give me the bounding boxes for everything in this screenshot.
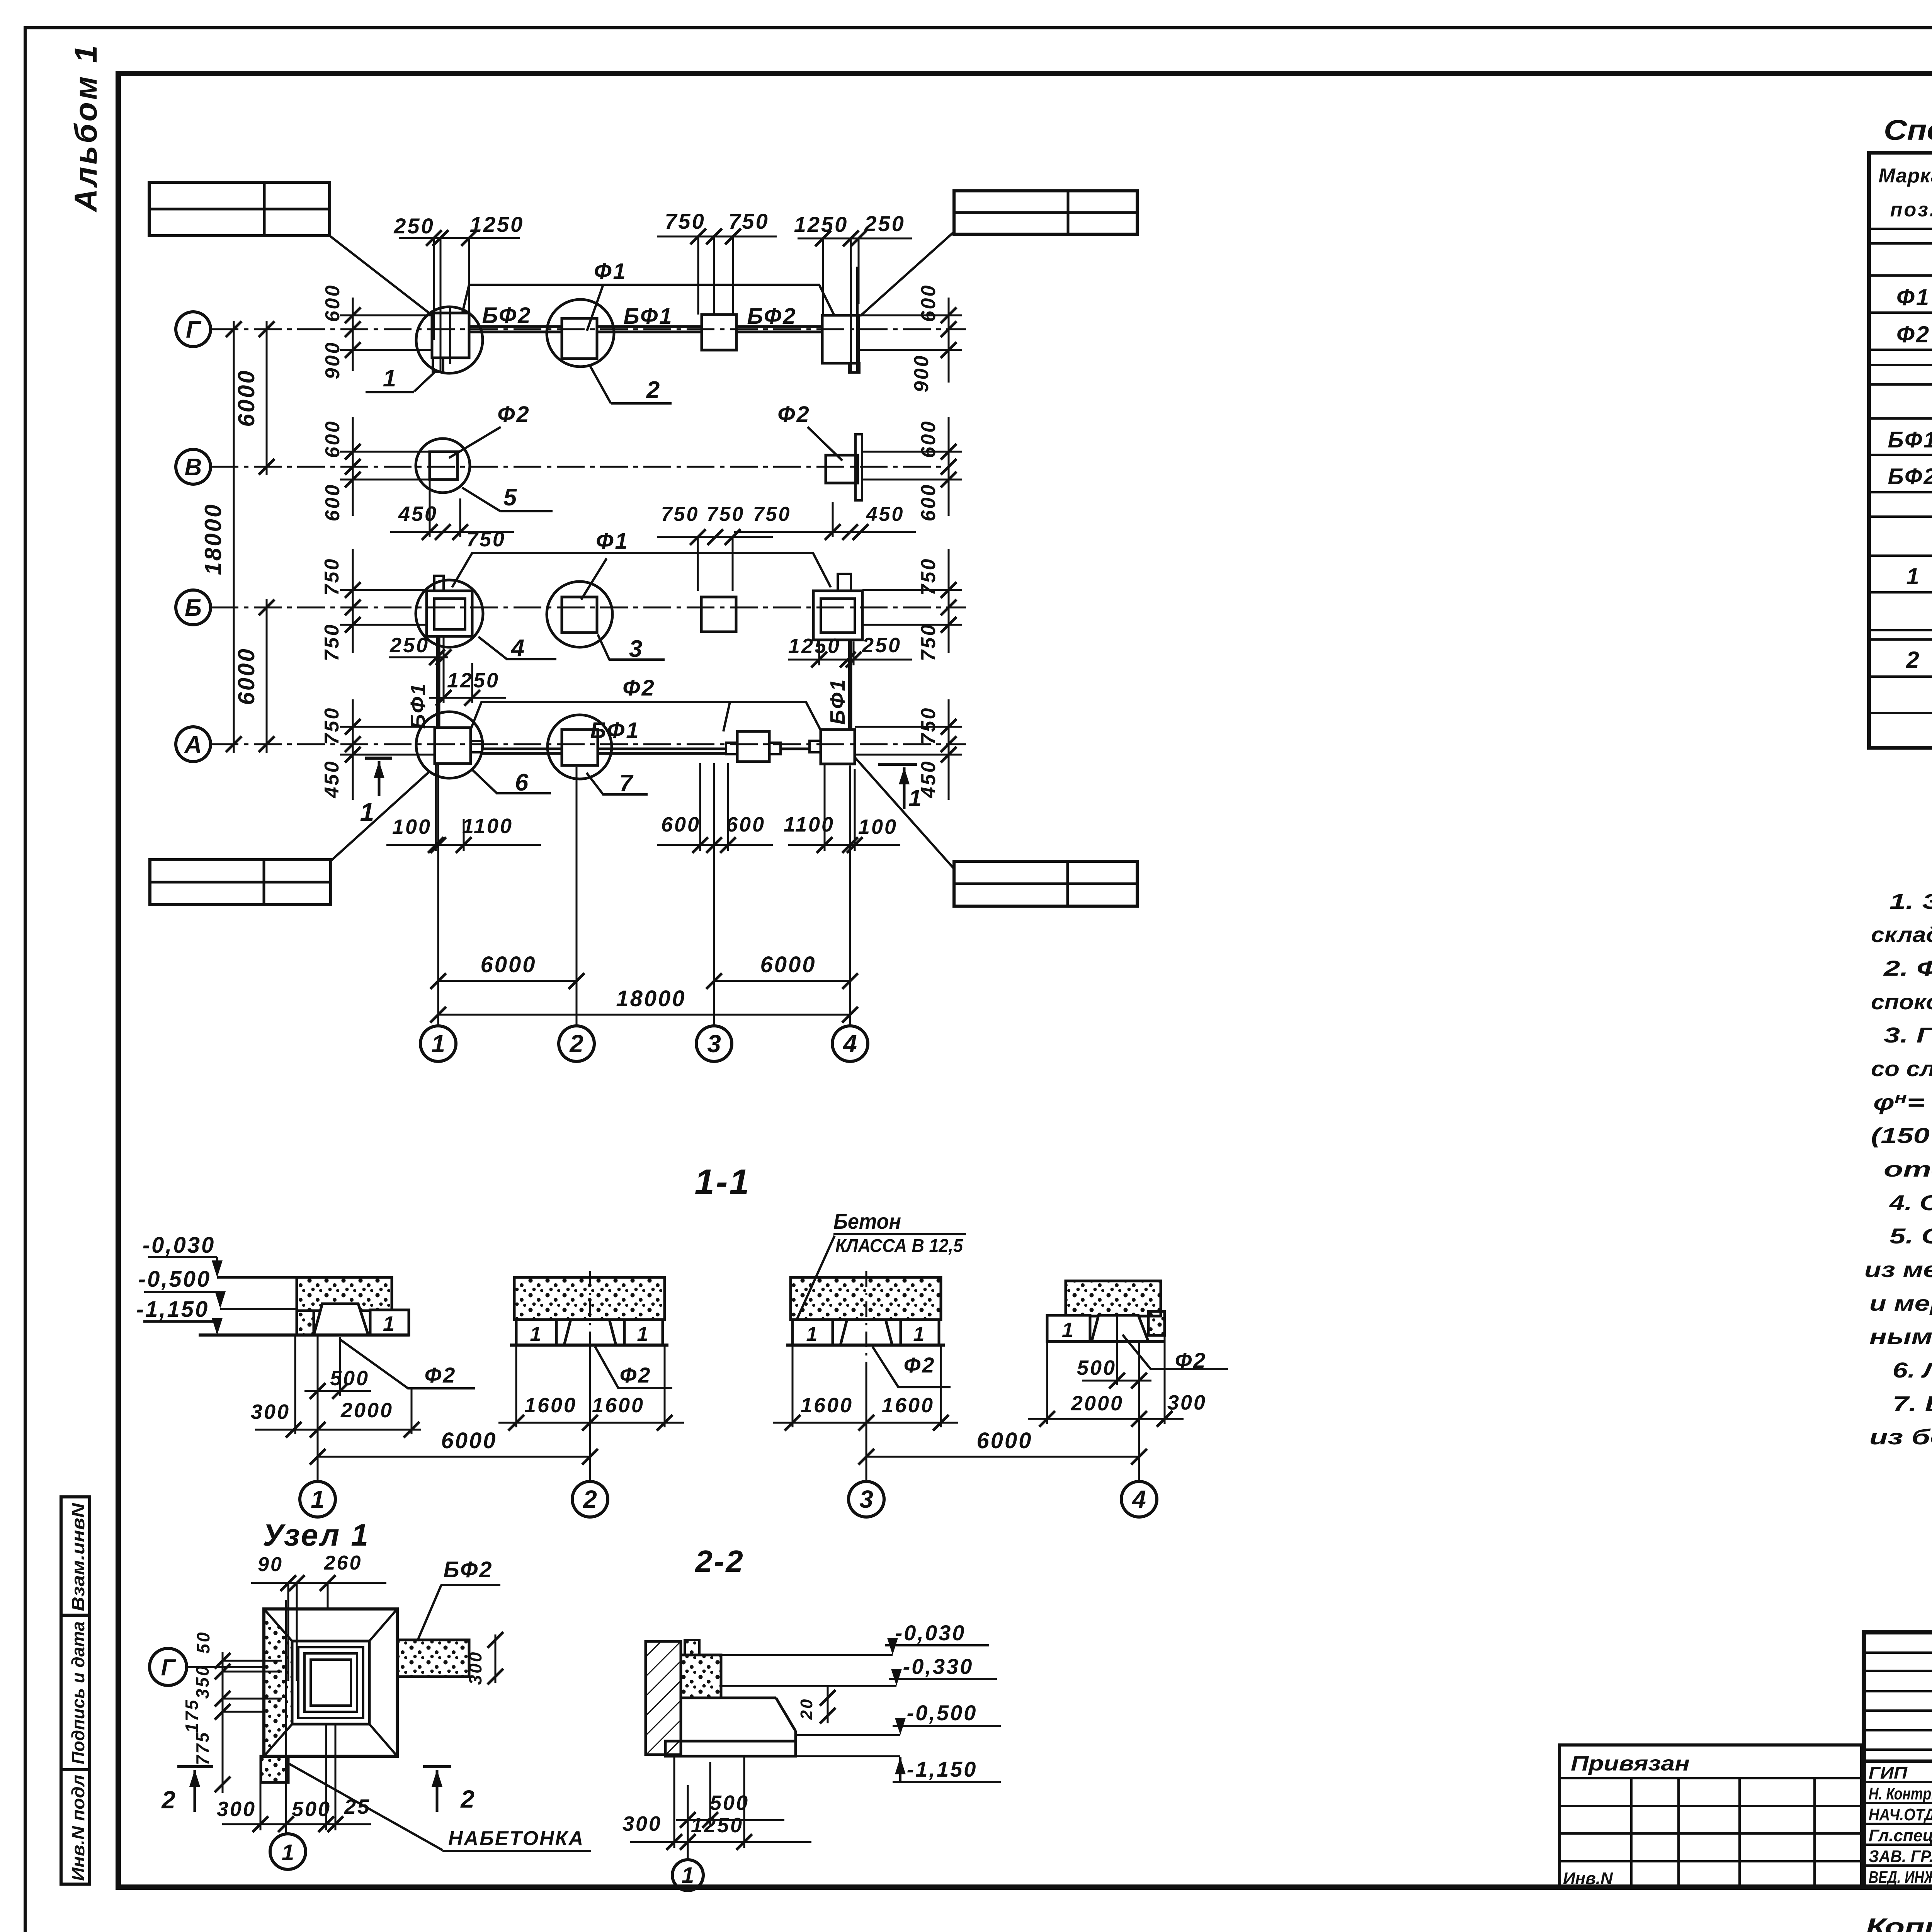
- wall hatched: [646, 1641, 681, 1755]
- svg-text:2: 2: [646, 377, 661, 403]
- beam BF1 vertical col1: [406, 636, 438, 729]
- column axis circle 4: [832, 1015, 868, 1061]
- svg-text:ЗАВ. ГР.: ЗАВ. ГР.: [1869, 1847, 1932, 1866]
- elevation -0.500: [138, 1267, 297, 1309]
- svg-text:2: 2: [583, 1485, 597, 1513]
- svg-text:2-2: 2-2: [694, 1544, 745, 1578]
- svg-text:Спецификация элементов фунда: Спецификация элементов фундаментов: [1884, 114, 1932, 146]
- specification table: [1869, 114, 1932, 748]
- callout F2 group 3: [872, 1347, 951, 1387]
- svg-text:спокойным рельефом территории.: спокойным рельефом территории.: [1871, 990, 1932, 1014]
- detail circle 7 pier: [548, 715, 612, 779]
- svg-text:Ф1: Ф1: [1896, 284, 1930, 310]
- footing group 3 blocks 1: [793, 1320, 939, 1345]
- svg-text:Альбом 1: Альбом 1: [68, 43, 104, 213]
- callout F2 group 4: [1122, 1335, 1228, 1372]
- title block grid: [1864, 1632, 1932, 1887]
- leader table to pier 1G: [330, 236, 430, 314]
- svg-text:ным уплотнением.: ным уплотнением.: [1869, 1324, 1932, 1349]
- pier 3B: [701, 597, 736, 632]
- dim 750-750 right row B: [862, 549, 962, 661]
- footing group 2 concrete: [514, 1277, 665, 1320]
- callout F2 group 1: [339, 1339, 475, 1388]
- svg-text:450: 450: [321, 760, 343, 799]
- axis dash group 3: [866, 1271, 867, 1376]
- axis line V: [211, 466, 943, 468]
- svg-text:6000: 6000: [480, 952, 536, 977]
- signature row: [1869, 1825, 1932, 1845]
- svg-text:НАЧ.ОТД: НАЧ.ОТД: [1869, 1805, 1932, 1824]
- section axis circle 1: [300, 1481, 335, 1517]
- footing group 2 F2 footing: [564, 1320, 616, 1345]
- pier 3A: [726, 731, 781, 762]
- spec table grid: [1869, 153, 1932, 748]
- column axis circle 1: [420, 1015, 456, 1061]
- svg-text:300: 300: [465, 1651, 485, 1685]
- col 2 extension line: [576, 767, 578, 1015]
- svg-text:Бетон: Бетон: [833, 1209, 901, 1233]
- detail circle 6 pier: [416, 712, 483, 778]
- svg-text:Г: Г: [161, 1655, 177, 1680]
- svg-text:750: 750: [753, 503, 791, 526]
- svg-text:4: 4: [1131, 1485, 1146, 1513]
- leader label 5: [462, 484, 553, 511]
- attachment table: [1560, 1745, 1862, 1887]
- ground line group 2: [510, 1344, 668, 1347]
- beam BF row G: [469, 327, 822, 332]
- svg-text:и мерзлых комьев слоями не бол: и мерзлых комьев слоями не более 200 мм …: [1869, 1291, 1932, 1315]
- callout F2 row V left: [449, 402, 531, 458]
- svg-text:Копировал.: Копировал.: [1866, 1914, 1932, 1932]
- svg-text:260: 260: [324, 1552, 362, 1574]
- ground line group 4: [1047, 1340, 1165, 1343]
- pier 4B with F footing: [813, 574, 862, 640]
- node section mark 2 right: [423, 1767, 476, 1813]
- svg-text:3: 3: [859, 1485, 873, 1513]
- axis circle Б: [176, 590, 211, 625]
- signature row: [1869, 1783, 1932, 1803]
- dim 6000 section left: [310, 1335, 598, 1481]
- svg-text:7. Все набетонки и монолитные: 7. Все набетонки и монолитные участки вы…: [1893, 1391, 1932, 1416]
- svg-text:Б: Б: [185, 595, 202, 621]
- svg-text:1100: 1100: [462, 815, 513, 838]
- footing group 1 F2 footing: [314, 1304, 368, 1335]
- svg-text:90: 90: [258, 1553, 283, 1576]
- svg-text:Узел 1: Узел 1: [263, 1518, 370, 1552]
- svg-text:1250: 1250: [447, 669, 500, 692]
- svg-text:2000: 2000: [1071, 1392, 1124, 1415]
- dim 500 s22: [676, 1762, 784, 1828]
- svg-text:250: 250: [393, 214, 434, 238]
- leader label 3: [598, 634, 665, 662]
- title block outline: [1864, 1632, 1932, 1887]
- svg-text:18000: 18000: [616, 986, 686, 1011]
- svg-text:3: 3: [629, 636, 644, 662]
- svg-text:6000: 6000: [760, 952, 816, 977]
- svg-text:из местного грунта без включен: из местного грунта без включений строите…: [1864, 1257, 1932, 1282]
- svg-text:Н. Контр.: Н. Контр.: [1869, 1784, 1932, 1803]
- col 3 extension line: [713, 763, 715, 1015]
- footing group 2 blocks 1: [516, 1320, 663, 1345]
- dim 600-600 right row V: [862, 417, 962, 521]
- svg-text:-0,030: -0,030: [143, 1233, 215, 1258]
- callout F2 row A: [471, 675, 821, 731]
- svg-text:2. Фундаменты разработаны для: 2. Фундаменты разработаны для строительс…: [1883, 956, 1932, 980]
- svg-text:БФ1: БФ1: [826, 678, 849, 724]
- title block: [1560, 1632, 1932, 1932]
- svg-text:750: 750: [728, 209, 769, 233]
- callout F2 group 2: [595, 1347, 672, 1388]
- footing group 4 block 1: [1047, 1315, 1090, 1342]
- section 2-2: [622, 1544, 1001, 1891]
- spec row F1: [1896, 284, 1932, 311]
- svg-text:БФ1: БФ1: [1888, 427, 1932, 452]
- dim 300-1250 s22: [622, 1756, 811, 1850]
- stamp box inv: [61, 1770, 90, 1884]
- svg-text:-0,030: -0,030: [895, 1621, 966, 1645]
- svg-text:6000: 6000: [441, 1428, 497, 1453]
- svg-text:250: 250: [389, 634, 429, 657]
- pier 1V F2: [430, 452, 457, 480]
- svg-text:3: 3: [707, 1030, 721, 1058]
- column axis circle 3: [696, 1015, 732, 1061]
- elevation -0.500 s22: [797, 1701, 1001, 1735]
- footing group 1 block 1: [370, 1310, 409, 1335]
- dim 750-750 above pier 3B: [657, 503, 773, 591]
- leader label 2: [590, 365, 672, 403]
- svg-text:1600: 1600: [524, 1394, 577, 1417]
- detail circle 1: [416, 307, 483, 373]
- svg-text:4: 4: [842, 1030, 857, 1058]
- section 2-2 axis circle 1: [672, 1860, 703, 1891]
- dim 6000 section right: [859, 1342, 1147, 1481]
- axis circle Г: [176, 312, 211, 347]
- svg-text:-0,330: -0,330: [903, 1654, 974, 1679]
- svg-text:1: 1: [913, 1323, 926, 1345]
- svg-text:Ф2: Ф2: [1896, 321, 1930, 347]
- svg-text:поз.: поз.: [1890, 199, 1932, 221]
- node inner rings: [292, 1641, 369, 1724]
- svg-text:БФ2: БФ2: [443, 1557, 493, 1582]
- svg-text:Ф2: Ф2: [497, 402, 531, 427]
- svg-text:350: 350: [192, 1665, 213, 1699]
- elevation -1.150 s22: [797, 1756, 1001, 1782]
- footing group 1 concrete: [297, 1277, 392, 1335]
- footing profile 2-2: [721, 1698, 796, 1741]
- dim 600-900 right row G: [859, 284, 962, 393]
- leader label 4: [478, 635, 556, 662]
- svg-text:600: 600: [917, 483, 940, 522]
- callout F1 row G: [462, 259, 834, 331]
- node left dims 50-350-175-775: [182, 1631, 282, 1793]
- svg-text:250: 250: [864, 211, 905, 236]
- svg-text:750: 750: [321, 623, 343, 662]
- svg-text:6: 6: [515, 769, 530, 796]
- section axis circle 2: [572, 1481, 608, 1517]
- leader table to pier 4A: [855, 758, 953, 868]
- svg-text:250: 250: [862, 634, 901, 657]
- dim chain 6000 upper: [233, 321, 274, 475]
- svg-text:Ф2: Ф2: [622, 675, 656, 701]
- node bottom dims 300-500-25: [217, 1724, 371, 1832]
- dim 750-450 below pier 4V: [734, 502, 916, 540]
- svg-text:Ф2: Ф2: [777, 402, 811, 427]
- svg-text:склада, соответствующая абсолю: склада, соответствующая абсолютной отмет…: [1871, 922, 1932, 947]
- dims below group 1: [251, 1335, 421, 1482]
- dim 600-600 left row V: [321, 417, 430, 521]
- svg-text:750: 750: [707, 503, 745, 526]
- spec table outline: [1869, 153, 1932, 748]
- column stippled: [681, 1640, 721, 1698]
- spec row F2: [1896, 321, 1932, 349]
- node nabetonka label: [286, 1762, 591, 1851]
- section 1-1: [136, 1162, 1228, 1517]
- node beam strip right: [397, 1632, 503, 1685]
- svg-text:600: 600: [661, 813, 701, 836]
- svg-text:100: 100: [392, 815, 432, 838]
- node dim 90-260: [251, 1552, 386, 1681]
- svg-text:300: 300: [1167, 1391, 1207, 1414]
- svg-text:100: 100: [858, 815, 898, 838]
- dim 20 s22: [797, 1686, 835, 1723]
- axis line B: [211, 607, 966, 609]
- leader table to pier 1A: [331, 772, 429, 861]
- svg-text:(150 кгс/см2), γн= 1,8 т/м3,: (150 кгс/см2), γн= 1,8 т/м3, Кг =1. Грун…: [1871, 1123, 1932, 1148]
- axis dash group 2: [589, 1271, 591, 1376]
- svg-text:1600: 1600: [801, 1394, 853, 1417]
- svg-text:1: 1: [383, 1312, 396, 1335]
- svg-text:1-1: 1-1: [695, 1162, 751, 1202]
- svg-text:ВЕД. ИНЖ: ВЕД. ИНЖ: [1869, 1868, 1932, 1887]
- axis circle А: [176, 727, 211, 762]
- detail circle 4 pier: [416, 580, 483, 647]
- svg-text:1: 1: [908, 785, 923, 811]
- section axis circle 3: [849, 1481, 884, 1517]
- dim 750-450 right row A: [855, 699, 962, 800]
- svg-text:1: 1: [530, 1323, 543, 1345]
- node axis circle 1: [270, 1834, 306, 1869]
- svg-text:6000: 6000: [233, 647, 259, 705]
- axis circle В: [176, 449, 211, 484]
- leader label 7: [587, 770, 648, 797]
- svg-text:БФ2: БФ2: [747, 304, 797, 329]
- svg-text:НАБЕТОНКА: НАБЕТОНКА: [448, 1827, 584, 1850]
- dim 1250 below pier 1B: [429, 638, 506, 706]
- dim 750-750 left row B: [321, 549, 427, 661]
- svg-text:-1,150: -1,150: [907, 1757, 978, 1781]
- svg-text:1600: 1600: [882, 1394, 934, 1417]
- footing group 4 F2 footing: [1092, 1315, 1148, 1342]
- ground line group 1: [199, 1333, 410, 1337]
- footing group 3 concrete: [791, 1277, 941, 1320]
- callout concrete class B12.5: [797, 1209, 966, 1320]
- node axis circle G: [150, 1648, 264, 1685]
- svg-text:1: 1: [431, 1030, 445, 1058]
- dim 250 below pier 1B: [389, 634, 451, 665]
- svg-text:300: 300: [251, 1400, 290, 1423]
- elevation -0.030 s22: [708, 1621, 989, 1655]
- svg-text:2: 2: [569, 1030, 583, 1058]
- svg-text:ГИП: ГИП: [1869, 1764, 1908, 1782]
- col 1 extension line: [437, 765, 439, 1015]
- svg-text:1100: 1100: [784, 813, 835, 836]
- svg-text:6000: 6000: [233, 369, 259, 427]
- slab 2-2: [665, 1741, 796, 1756]
- svg-text:900: 900: [910, 354, 933, 393]
- svg-text:БФ1: БФ1: [590, 718, 640, 743]
- svg-text:1: 1: [1062, 1318, 1075, 1342]
- svg-text:А: А: [184, 731, 202, 758]
- svg-text:Взам.инвN: Взам.инвN: [68, 1503, 88, 1611]
- svg-text:1250: 1250: [691, 1814, 743, 1837]
- svg-text:В: В: [185, 454, 202, 481]
- svg-text:750: 750: [665, 209, 705, 233]
- svg-text:6. Лист смотреть совместно с л: 6. Лист смотреть совместно с листом АС-8: [1893, 1358, 1932, 1382]
- node stipple leg below: [261, 1756, 288, 1782]
- svg-text:Ф2: Ф2: [425, 1363, 457, 1387]
- callout F1 row B: [452, 529, 831, 600]
- dim 6000 bottom left: [430, 952, 585, 989]
- svg-text:750: 750: [917, 707, 940, 745]
- pier 1A: [435, 728, 482, 764]
- signature row: [1869, 1762, 1932, 1782]
- stamp box podpis: [61, 1615, 90, 1770]
- svg-text:4. Отметка низа всех фундамент: 4. Отметка низа всех фундаментов - 1,150: [1889, 1190, 1932, 1215]
- svg-text:2: 2: [161, 1786, 177, 1814]
- node corner diagonals: [264, 1609, 397, 1756]
- elevation -0.330 s22: [721, 1654, 997, 1686]
- svg-text:-0,500: -0,500: [907, 1701, 978, 1725]
- svg-text:450: 450: [866, 503, 905, 526]
- section mark 1 left: [360, 758, 392, 826]
- svg-text:6000: 6000: [976, 1428, 1032, 1453]
- dim chain 6000 lower: [233, 599, 274, 753]
- svg-text:1600: 1600: [592, 1394, 645, 1417]
- dim 750-450 left row A: [321, 699, 435, 800]
- dim 1600-1600 group 3: [773, 1345, 958, 1430]
- svg-text:5: 5: [503, 484, 518, 511]
- pier 4A: [810, 730, 855, 764]
- svg-text:1: 1: [311, 1485, 325, 1513]
- footing group 4 concrete: [1066, 1281, 1165, 1335]
- svg-text:18000: 18000: [200, 503, 226, 575]
- node 1 detail: [150, 1518, 591, 1869]
- dim 100-1100 below pier 1A: [386, 765, 541, 853]
- svg-text:Ф1: Ф1: [594, 259, 627, 284]
- footing group 3 F2 footing: [840, 1320, 892, 1345]
- svg-text:КЛАССА В 12,5: КЛАССА В 12,5: [835, 1236, 963, 1256]
- section axis circle 4: [1121, 1481, 1157, 1517]
- svg-text:500: 500: [1077, 1356, 1116, 1379]
- svg-text:500: 500: [330, 1367, 369, 1390]
- dim 6000 bottom right: [706, 952, 858, 989]
- svg-text:БФ2: БФ2: [1888, 464, 1932, 489]
- svg-text:1250: 1250: [788, 634, 841, 658]
- spec row BF2: [1888, 463, 1932, 490]
- pier 2G F1: [562, 318, 597, 359]
- notes text block: [1864, 889, 1932, 1449]
- svg-text:отсутствуют.: отсутствуют.: [1884, 1157, 1932, 1181]
- ground line group 3: [786, 1344, 945, 1347]
- corner table top-left: [149, 182, 330, 236]
- svg-text:-0,500: -0,500: [138, 1267, 211, 1292]
- svg-text:900: 900: [321, 341, 344, 379]
- pier 4V F2 with plate: [826, 434, 862, 500]
- svg-text:450: 450: [398, 502, 438, 526]
- foundation plan: [149, 182, 1137, 1061]
- svg-text:750: 750: [661, 503, 699, 526]
- svg-text:БФ1: БФ1: [623, 304, 673, 329]
- elevation -0.030: [143, 1233, 297, 1277]
- svg-text:4: 4: [510, 635, 526, 662]
- detail circle 2: [547, 299, 614, 367]
- dims below group 4: [1028, 1315, 1207, 1427]
- svg-text:Подпись и дата: Подпись и дата: [68, 1621, 88, 1764]
- dim 1250-250 below pier 4B: [788, 634, 912, 667]
- svg-text:из бетона класса В 12,5: из бетона класса В 12,5: [1869, 1425, 1932, 1449]
- dim 250-1250 top col1: [393, 212, 524, 372]
- svg-text:1: 1: [282, 1840, 294, 1865]
- svg-text:-1,150: -1,150: [136, 1297, 209, 1322]
- svg-text:750: 750: [321, 707, 343, 745]
- svg-text:1: 1: [360, 798, 376, 826]
- svg-text:БФ2: БФ2: [482, 303, 532, 328]
- dim 18000 bottom: [430, 986, 858, 1022]
- detail circle 3 pier: [547, 582, 612, 647]
- svg-text:2: 2: [1906, 647, 1920, 673]
- svg-text:Марка,: Марка,: [1879, 165, 1932, 187]
- section mark 1 right: [878, 764, 923, 811]
- svg-text:300: 300: [622, 1812, 662, 1835]
- svg-text:5. Обратную засыпку пазух фунд: 5. Обратную засыпку пазух фундаментов вы…: [1889, 1224, 1932, 1248]
- svg-text:1: 1: [383, 365, 398, 392]
- column axis circle 2: [559, 1015, 594, 1061]
- svg-text:750: 750: [321, 558, 343, 596]
- node stipple band: [264, 1609, 292, 1756]
- corner table bottom-right: [954, 861, 1137, 906]
- svg-text:600: 600: [321, 284, 344, 322]
- pier 1B with F footing: [427, 576, 472, 636]
- svg-text:175: 175: [182, 1699, 202, 1733]
- svg-text:1: 1: [682, 1863, 694, 1888]
- leader label 1: [366, 365, 435, 392]
- pier 2A: [562, 730, 598, 765]
- svg-text:1. За отметку 0,000 принята от: 1. За отметку 0,000 принята отметка чист…: [1889, 889, 1932, 913]
- spec row 2 bolt: [1906, 646, 1932, 675]
- svg-text:3. Грунты в основании непучини: 3. Грунты в основании непучинистые, непр…: [1884, 1023, 1932, 1047]
- signature row: [1869, 1846, 1932, 1866]
- dim chain 18000: [200, 321, 241, 753]
- leader table to pier 4G: [860, 232, 954, 316]
- svg-text:600: 600: [321, 483, 344, 522]
- pier 3G: [702, 315, 736, 350]
- svg-text:Ф2: Ф2: [620, 1363, 652, 1387]
- callout F2 row V right: [777, 402, 842, 461]
- svg-text:Гл.спец: Гл.спец: [1869, 1826, 1932, 1845]
- svg-text:Г: Г: [186, 316, 202, 343]
- dim 1600-1600 group 2: [498, 1345, 684, 1430]
- beam BF1 vertical col4: [826, 640, 850, 730]
- beam BF1 row A: [482, 749, 810, 753]
- axis line s22: [687, 1785, 689, 1859]
- svg-text:2000: 2000: [340, 1399, 393, 1422]
- detail circle 5 pier: [416, 439, 470, 493]
- spec row BF1: [1888, 426, 1932, 454]
- spec row 1 FBS: [1906, 563, 1932, 590]
- dim 1250-250 top col4: [794, 211, 912, 315]
- pier 1G with F2 footing: [432, 306, 469, 372]
- axis line G: [211, 328, 966, 330]
